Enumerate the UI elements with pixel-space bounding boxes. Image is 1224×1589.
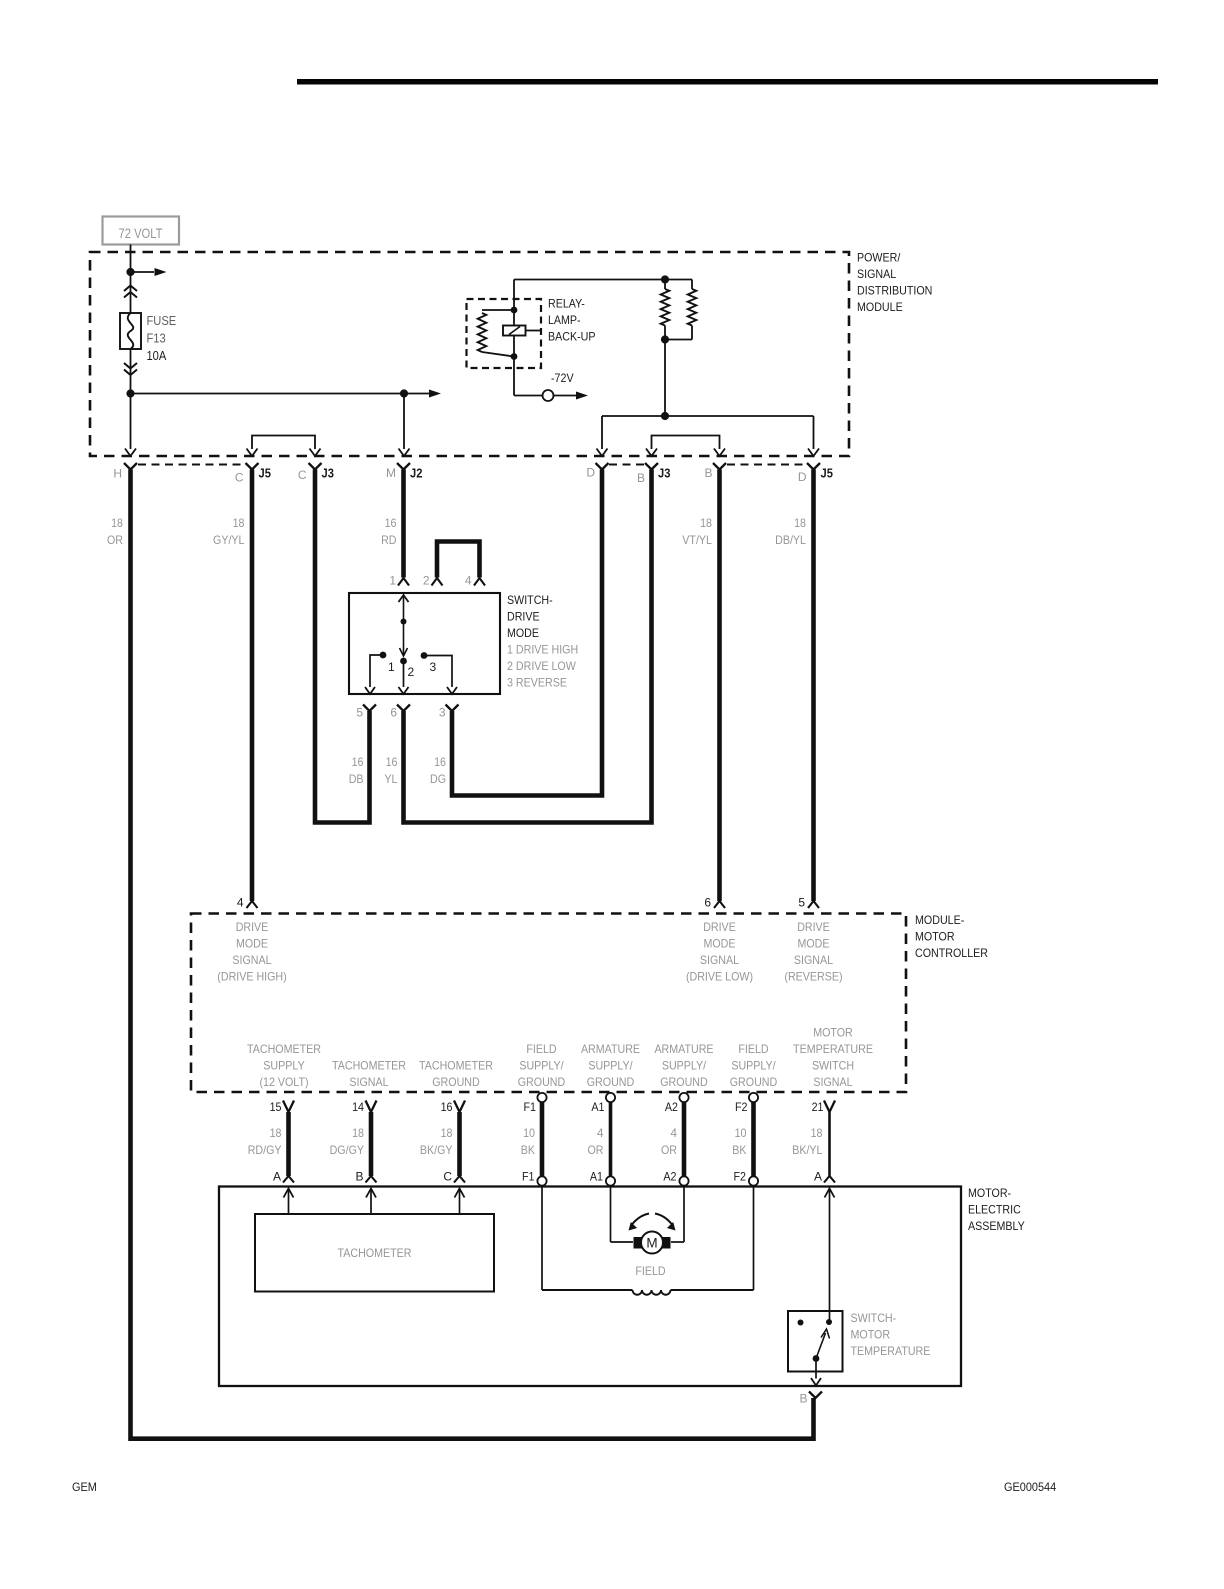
- arrow to pin 5: [365, 687, 375, 694]
- svg-text:18: 18: [811, 1126, 823, 1140]
- switch pin 1 terminal: [398, 578, 409, 586]
- svg-text:18: 18: [794, 516, 806, 530]
- wire divider down: [664, 340, 666, 417]
- svg-text:BK/YL: BK/YL: [792, 1143, 823, 1157]
- fuse F13 10A: [120, 313, 141, 349]
- svg-text:F2: F2: [734, 1170, 747, 1184]
- svg-text:B: B: [637, 471, 645, 485]
- arrow into connector C J5: [247, 449, 258, 457]
- off-page chevrons down: [124, 363, 137, 369]
- svg-text:(DRIVE LOW): (DRIVE LOW): [686, 970, 753, 984]
- svg-text:DG: DG: [430, 772, 446, 786]
- controller pin 16 terminal: [454, 1101, 465, 1113]
- svg-text:VT/YL: VT/YL: [682, 533, 712, 547]
- controller pin 14 terminal: [366, 1101, 377, 1113]
- connector terminal H: [124, 463, 137, 470]
- terminal C: [454, 1176, 465, 1183]
- svg-text:J3: J3: [322, 467, 334, 481]
- svg-text:FIELD: FIELD: [738, 1042, 769, 1056]
- svg-text:GROUND: GROUND: [587, 1075, 635, 1089]
- wire to fuse: [130, 272, 132, 313]
- svg-text:MOTOR: MOTOR: [813, 1026, 853, 1040]
- svg-text:SIGNAL: SIGNAL: [232, 953, 271, 967]
- svg-text:B: B: [704, 466, 712, 480]
- motor-electric assembly box: [219, 1187, 961, 1387]
- junction relay bottom: [511, 353, 518, 360]
- svg-text:(REVERSE): (REVERSE): [784, 970, 842, 984]
- svg-text:18: 18: [270, 1126, 282, 1140]
- terminal circle F2: [749, 1176, 758, 1185]
- wire 4 OR: [609, 1102, 613, 1177]
- svg-text:F1: F1: [524, 1100, 537, 1114]
- module-motor controller dashed box: [191, 914, 906, 1093]
- svg-text:RELAY-: RELAY-: [548, 297, 585, 311]
- svg-text:15: 15: [270, 1100, 282, 1114]
- power/signal distribution module dashed box: [90, 252, 849, 456]
- svg-text:A: A: [814, 1170, 822, 1184]
- svg-text:TACHOMETER: TACHOMETER: [247, 1042, 321, 1056]
- wire 16 RD M J2 to switch pin 1: [401, 470, 406, 578]
- svg-text:MODE: MODE: [507, 626, 539, 640]
- svg-text:RD: RD: [381, 533, 397, 547]
- wire to temperature switch: [829, 1189, 831, 1323]
- terminal circle F1: [537, 1176, 546, 1185]
- arrow into connector B: [714, 449, 725, 457]
- wire resistor bottom: [482, 352, 514, 357]
- temp switch contact common: [826, 1319, 832, 1325]
- connector terminal D: [596, 463, 609, 470]
- arrow into connector D J5: [808, 449, 819, 457]
- arrow into connector B J3: [646, 449, 657, 457]
- svg-text:GROUND: GROUND: [518, 1075, 566, 1089]
- svg-text:DISTRIBUTION: DISTRIBUTION: [857, 284, 932, 298]
- svg-text:M: M: [386, 466, 396, 480]
- wire F2 to field: [753, 1187, 755, 1291]
- svg-text:BK: BK: [732, 1143, 746, 1157]
- svg-text:4: 4: [465, 574, 472, 588]
- wire D to switch pin 3: [452, 470, 602, 796]
- jumper bracket C-C: [252, 436, 315, 450]
- svg-text:B: B: [355, 1170, 363, 1184]
- arrow into connector D: [597, 449, 608, 457]
- relay-lamp-back-up dashed box: [467, 299, 542, 368]
- svg-text:ARMATURE: ARMATURE: [654, 1042, 713, 1056]
- svg-text:F13: F13: [147, 332, 166, 346]
- svg-text:BACK-UP: BACK-UP: [548, 330, 596, 344]
- svg-text:10A: 10A: [147, 349, 167, 363]
- arrow into tachometer: [284, 1189, 294, 1198]
- svg-text:D: D: [586, 466, 595, 480]
- svg-text:A2: A2: [663, 1170, 676, 1184]
- svg-text:5: 5: [798, 896, 805, 910]
- connector body dashed lines: [138, 464, 245, 466]
- temp switch blade: [816, 1333, 826, 1359]
- svg-text:MOTOR: MOTOR: [851, 1328, 891, 1342]
- svg-text:3: 3: [439, 706, 446, 720]
- svg-text:3 REVERSE: 3 REVERSE: [507, 676, 567, 690]
- svg-text:1 DRIVE HIGH: 1 DRIVE HIGH: [507, 643, 578, 657]
- svg-text:SUPPLY: SUPPLY: [263, 1059, 304, 1073]
- svg-text:BK/GY: BK/GY: [420, 1143, 453, 1157]
- controller pin 4 terminal: [247, 901, 258, 908]
- temp switch contact open: [798, 1320, 804, 1326]
- svg-text:J5: J5: [821, 467, 833, 481]
- switch-motor temperature box: [788, 1311, 843, 1372]
- wire 72V feed: [130, 245, 132, 273]
- svg-text:DG/GY: DG/GY: [330, 1143, 364, 1157]
- svg-text:BK: BK: [521, 1143, 535, 1157]
- wire bus 72V: [131, 393, 405, 395]
- arrow -72V right: [576, 392, 588, 400]
- arrow into tachometer: [366, 1189, 376, 1198]
- svg-text:RD/GY: RD/GY: [248, 1143, 282, 1157]
- svg-text:SUPPLY/: SUPPLY/: [519, 1059, 564, 1073]
- wire switch wiper: [403, 622, 405, 656]
- wire contact 3 to pin 3: [424, 656, 452, 688]
- svg-text:SUPPLY/: SUPPLY/: [662, 1059, 707, 1073]
- arrow switch common: [399, 595, 409, 602]
- terminal circle A1: [606, 1176, 615, 1185]
- controller pin 6 terminal: [714, 901, 725, 908]
- arrow temp switch out: [811, 1378, 821, 1386]
- svg-text:FIELD: FIELD: [635, 1264, 666, 1278]
- wire 4 OR: [682, 1102, 687, 1177]
- svg-text:A1: A1: [591, 1100, 604, 1114]
- switch contact 1: [380, 652, 387, 659]
- motor M: [634, 1238, 641, 1249]
- wire switch common: [403, 595, 405, 622]
- wire tap: [131, 271, 155, 273]
- svg-text:GE000544: GE000544: [1004, 1482, 1057, 1494]
- wire relay vertical: [513, 280, 515, 396]
- svg-text:(12 VOLT): (12 VOLT): [259, 1075, 308, 1089]
- controller pin A2 terminal circle: [679, 1093, 688, 1102]
- wire 18 DG/GY: [369, 1112, 374, 1176]
- svg-text:1: 1: [388, 660, 395, 674]
- switch common dot: [401, 619, 407, 625]
- svg-text:18: 18: [441, 1126, 453, 1140]
- svg-text:F1: F1: [522, 1170, 535, 1184]
- wire divider bus: [602, 415, 814, 417]
- wire 18 VT/YL B to pin 6: [717, 470, 722, 902]
- wire fuse out: [130, 349, 132, 394]
- svg-text:16: 16: [385, 516, 397, 530]
- svg-text:A2: A2: [665, 1100, 678, 1114]
- controller pin 5 terminal: [808, 901, 819, 908]
- svg-text:3: 3: [430, 660, 437, 674]
- svg-text:MODE: MODE: [798, 937, 830, 951]
- svg-text:72 VOLT: 72 VOLT: [119, 225, 163, 241]
- wire coil to box edge: [526, 330, 541, 332]
- arrow tap right: [155, 268, 167, 276]
- svg-text:DB: DB: [349, 772, 364, 786]
- wire 18 RD/GY: [286, 1112, 291, 1176]
- resistor divider left: [661, 289, 670, 326]
- connector terminal C J3: [309, 463, 322, 470]
- svg-text:18: 18: [111, 516, 123, 530]
- connector terminal B: [713, 463, 726, 470]
- svg-text:MOTOR-: MOTOR-: [968, 1186, 1011, 1200]
- svg-text:FIELD: FIELD: [526, 1042, 557, 1056]
- svg-text:DRIVE: DRIVE: [507, 610, 540, 624]
- jumper bracket switch pins 2-4: [437, 542, 480, 578]
- wire to pin D: [601, 416, 603, 449]
- junction resistor pair bottom: [661, 335, 669, 343]
- svg-text:18: 18: [352, 1126, 364, 1140]
- terminal circle -72V: [543, 390, 554, 401]
- svg-text:B: B: [799, 1392, 807, 1406]
- svg-text:MODULE: MODULE: [857, 300, 903, 314]
- svg-text:(DRIVE HIGH): (DRIVE HIGH): [217, 970, 286, 984]
- svg-text:A1: A1: [590, 1170, 603, 1184]
- wire A1 to motor: [610, 1187, 612, 1243]
- inductor field coil: [542, 1289, 633, 1291]
- wire B J3 to switch pin 6: [404, 470, 652, 823]
- svg-text:GEM: GEM: [72, 1482, 97, 1494]
- rotation arrows: [632, 1214, 649, 1225]
- svg-text:POWER/: POWER/: [857, 251, 901, 265]
- svg-text:SIGNAL: SIGNAL: [349, 1075, 388, 1089]
- arrow to pin 3: [447, 687, 457, 694]
- svg-text:OR: OR: [588, 1143, 604, 1157]
- svg-text:SIGNAL: SIGNAL: [813, 1075, 852, 1089]
- svg-text:LAMP-: LAMP-: [548, 313, 581, 327]
- svg-text:SUPPLY/: SUPPLY/: [731, 1059, 776, 1073]
- wire 18 GY/YL C J5 to pin 4: [250, 470, 255, 902]
- wire 18 BK/GY: [457, 1112, 462, 1176]
- wire contact 2 to pin 6: [403, 661, 405, 687]
- svg-text:4: 4: [597, 1126, 604, 1140]
- svg-text:SIGNAL: SIGNAL: [857, 267, 896, 281]
- svg-text:MODE: MODE: [236, 937, 268, 951]
- svg-text:16: 16: [386, 755, 398, 769]
- svg-text:YL: YL: [384, 772, 397, 786]
- junction: [126, 268, 134, 276]
- svg-text:SWITCH-: SWITCH-: [507, 593, 553, 607]
- junction resistor pair top: [661, 275, 669, 283]
- svg-text:GY/YL: GY/YL: [213, 533, 245, 547]
- svg-text:GROUND: GROUND: [660, 1075, 708, 1089]
- svg-text:CONTROLLER: CONTROLLER: [915, 946, 988, 960]
- svg-text:TACHOMETER: TACHOMETER: [332, 1059, 406, 1073]
- connector terminal B: [809, 1392, 822, 1399]
- svg-text:TACHOMETER: TACHOMETER: [419, 1059, 493, 1073]
- svg-text:6: 6: [390, 706, 397, 720]
- svg-text:10: 10: [523, 1126, 535, 1140]
- wire to relay coil resistor: [482, 309, 514, 311]
- wire 18 OR circuit H to B: [131, 470, 814, 1439]
- switch contact 2: [400, 658, 407, 665]
- svg-text:J5: J5: [259, 467, 271, 481]
- arrow into connector C J3: [310, 449, 321, 457]
- svg-text:TEMPERATURE: TEMPERATURE: [793, 1042, 873, 1056]
- wire -72V stub: [554, 395, 577, 397]
- svg-text:MODE: MODE: [704, 937, 736, 951]
- svg-text:MOTOR: MOTOR: [915, 930, 955, 944]
- svg-text:D: D: [798, 470, 807, 484]
- switch pin 3 terminal: [446, 705, 459, 712]
- svg-text:MODULE-: MODULE-: [915, 913, 964, 927]
- junction divider node: [661, 412, 669, 420]
- svg-text:J2: J2: [410, 467, 422, 481]
- wire bus stub: [404, 393, 429, 395]
- svg-text:SWITCH-: SWITCH-: [851, 1311, 897, 1325]
- svg-text:ELECTRIC: ELECTRIC: [968, 1203, 1021, 1217]
- arrow into connector H: [125, 449, 136, 457]
- svg-text:6: 6: [704, 896, 711, 910]
- node 72 VOLT supply box: [103, 217, 180, 245]
- terminal A: [824, 1176, 835, 1183]
- wire A2 to motor: [683, 1187, 685, 1243]
- svg-text:1: 1: [389, 574, 396, 588]
- svg-text:DB/YL: DB/YL: [775, 533, 806, 547]
- svg-text:J3: J3: [658, 467, 670, 481]
- svg-text:C: C: [235, 471, 244, 485]
- wire C J3 to switch pin 5: [315, 470, 370, 823]
- arrow bus right: [429, 390, 441, 398]
- wire resistor right bottom: [691, 326, 693, 340]
- wire to pin M J2: [403, 394, 405, 450]
- wire relay top to resistors: [514, 279, 692, 281]
- svg-text:C: C: [443, 1170, 452, 1184]
- off-page chevrons up: [124, 286, 137, 292]
- svg-text:A: A: [273, 1170, 281, 1184]
- svg-text:18: 18: [233, 516, 245, 530]
- svg-text:4: 4: [670, 1126, 677, 1140]
- svg-text:2: 2: [408, 665, 415, 679]
- svg-text:SUPPLY/: SUPPLY/: [588, 1059, 633, 1073]
- svg-text:DRIVE: DRIVE: [797, 920, 830, 934]
- wire to pin D J5: [813, 416, 815, 449]
- svg-text:M: M: [646, 1236, 657, 1251]
- switch contact 3: [421, 652, 428, 659]
- arrowhead wiper: [400, 648, 408, 656]
- connector terminal M J2: [397, 463, 410, 470]
- arrow into tachometer: [455, 1189, 465, 1198]
- svg-text:2 DRIVE LOW: 2 DRIVE LOW: [507, 659, 576, 673]
- svg-text:SWITCH: SWITCH: [812, 1059, 854, 1073]
- svg-text:FUSE: FUSE: [147, 314, 177, 328]
- svg-text:16: 16: [441, 1100, 453, 1114]
- wire to pin H: [130, 394, 132, 450]
- wire 18 BK/YL: [828, 1112, 831, 1176]
- svg-text:4: 4: [237, 896, 244, 910]
- svg-text:DRIVE: DRIVE: [236, 920, 269, 934]
- connector terminal D J5: [807, 463, 820, 470]
- header rule: [297, 79, 1158, 85]
- junction bus: [400, 389, 408, 397]
- svg-text:2: 2: [423, 574, 430, 588]
- jumper bracket B-B: [652, 436, 720, 450]
- tachometer box: [255, 1214, 494, 1292]
- svg-text:H: H: [113, 467, 122, 481]
- svg-text:C: C: [298, 468, 307, 482]
- connector terminal B J3: [645, 463, 658, 470]
- svg-text:DRIVE: DRIVE: [703, 920, 736, 934]
- relay coil: [503, 326, 526, 336]
- svg-text:F2: F2: [735, 1100, 748, 1114]
- svg-text:SIGNAL: SIGNAL: [700, 953, 739, 967]
- arrow to pin 6: [399, 687, 409, 694]
- svg-text:ASSEMBLY: ASSEMBLY: [968, 1219, 1025, 1233]
- wire F1 to field: [541, 1187, 543, 1291]
- switch pin 6 terminal: [397, 705, 410, 712]
- svg-text:5: 5: [356, 706, 363, 720]
- wire 10 BK: [751, 1102, 756, 1177]
- terminal B: [366, 1176, 377, 1183]
- wire relay to -72V: [514, 395, 543, 397]
- svg-text:21: 21: [812, 1100, 824, 1114]
- controller pin F1 terminal circle: [537, 1093, 546, 1102]
- resistor relay coil suppression: [478, 313, 487, 352]
- arrow into temperature switch: [825, 1189, 835, 1198]
- wire temp switch out: [815, 1359, 817, 1379]
- svg-text:OR: OR: [661, 1143, 677, 1157]
- terminal A: [283, 1176, 294, 1183]
- wire 18 DB/YL D J5 to pin 5: [811, 470, 816, 902]
- switch-drive mode box: [349, 593, 500, 694]
- switch pin 5 terminal: [363, 705, 376, 712]
- svg-text:GROUND: GROUND: [432, 1075, 480, 1089]
- svg-text:16: 16: [434, 755, 446, 769]
- connector terminal C J5: [246, 463, 259, 470]
- svg-text:OR: OR: [107, 533, 123, 547]
- svg-text:TACHOMETER: TACHOMETER: [338, 1246, 412, 1260]
- wire resistor right top: [691, 280, 693, 290]
- wire contact 1 to pin 5: [370, 655, 383, 687]
- svg-text:-72V: -72V: [551, 371, 574, 385]
- svg-text:18: 18: [700, 516, 712, 530]
- controller pin 21 terminal: [824, 1101, 835, 1113]
- svg-text:TEMPERATURE: TEMPERATURE: [851, 1344, 931, 1358]
- switch pin 4 terminal: [474, 578, 485, 586]
- arrow into connector M: [399, 449, 410, 457]
- controller pin 15 terminal: [283, 1101, 294, 1113]
- resistor divider right: [688, 289, 697, 326]
- wire 10 BK: [540, 1102, 545, 1177]
- svg-text:GROUND: GROUND: [730, 1075, 778, 1089]
- svg-text:16: 16: [352, 755, 364, 769]
- switch pin 2 terminal: [432, 578, 443, 586]
- terminal circle A2: [679, 1176, 688, 1185]
- svg-text:ARMATURE: ARMATURE: [581, 1042, 640, 1056]
- temp switch pole: [813, 1355, 820, 1362]
- svg-text:10: 10: [735, 1126, 747, 1140]
- controller pin F2 terminal circle: [749, 1093, 758, 1102]
- controller pin A1 terminal circle: [606, 1093, 615, 1102]
- junction fuse bus: [126, 389, 134, 397]
- svg-text:14: 14: [352, 1100, 364, 1114]
- junction relay top: [511, 307, 518, 314]
- svg-text:SIGNAL: SIGNAL: [794, 953, 833, 967]
